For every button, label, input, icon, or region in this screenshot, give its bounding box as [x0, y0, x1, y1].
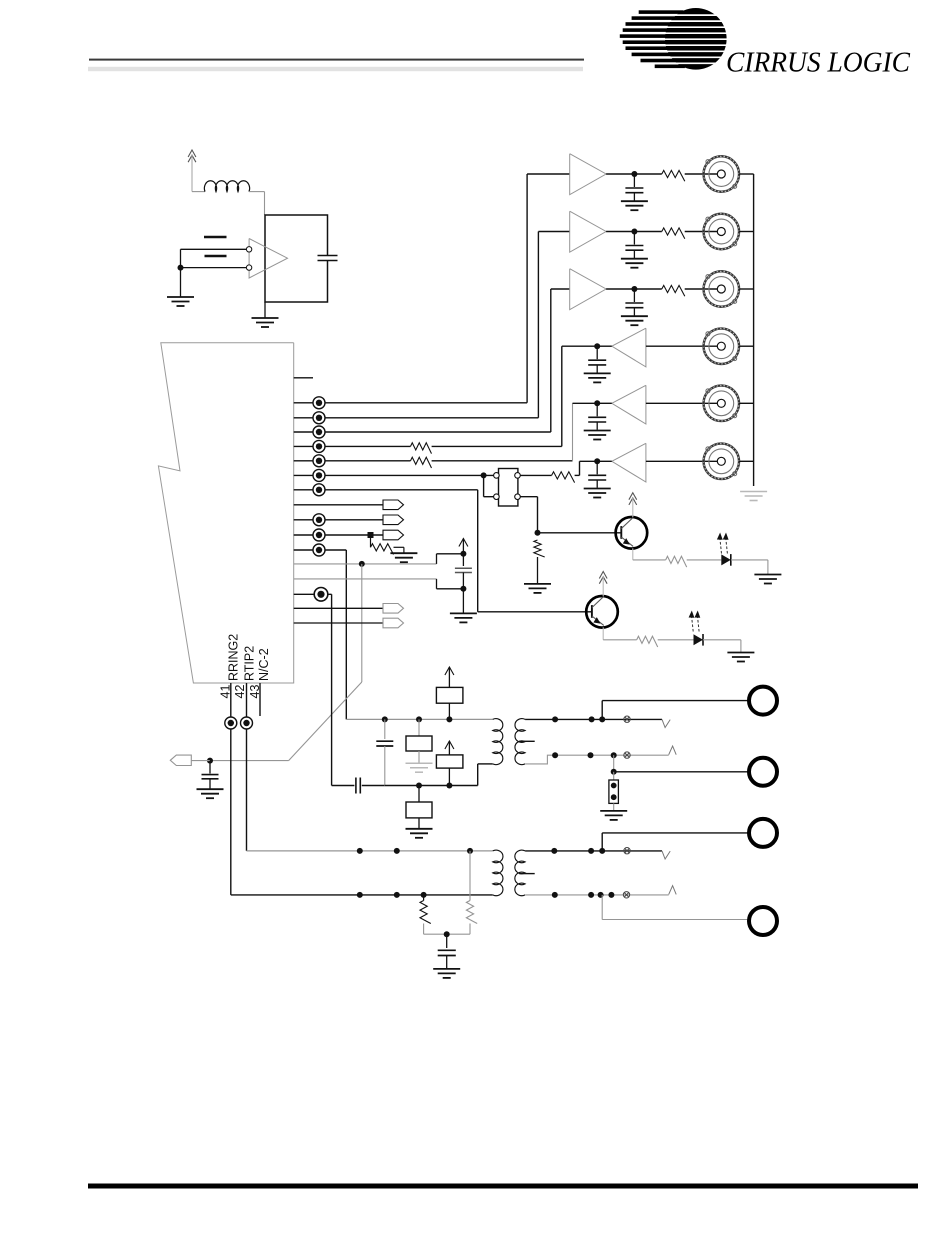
- ground: [390, 553, 417, 562]
- test point: [241, 717, 253, 729]
- wire: [602, 627, 604, 640]
- wire: [602, 700, 749, 702]
- wire: [634, 288, 661, 290]
- ground: [406, 763, 433, 772]
- ground: [584, 489, 611, 498]
- junction: [608, 892, 614, 898]
- wire: [525, 718, 662, 720]
- Q1 emitter: [621, 537, 633, 546]
- wire: [181, 248, 247, 250]
- wire: [230, 683, 232, 895]
- wire: [418, 786, 420, 803]
- wire: [602, 919, 749, 921]
- wire: [403, 547, 405, 553]
- wire: [477, 764, 479, 786]
- wire: [469, 851, 471, 901]
- svg-text:N/C-2: N/C-2: [257, 648, 271, 681]
- wire: [181, 267, 247, 269]
- shape: [669, 886, 677, 895]
- BNC jack row 4: [703, 328, 740, 365]
- decoupling capacitor to ground: [588, 461, 606, 488]
- series resistor row 3: [662, 285, 685, 296]
- junction: [357, 892, 363, 898]
- wire: [294, 474, 497, 476]
- LED1 light arrows: [720, 539, 722, 554]
- ground: [584, 373, 611, 382]
- wire: [202, 774, 219, 776]
- wire: [370, 535, 372, 547]
- shape: [612, 443, 646, 482]
- resistor: [371, 544, 394, 555]
- decoupling capacitor to ground: [625, 174, 643, 201]
- shape: [612, 328, 646, 367]
- junction: [588, 892, 594, 898]
- wire: [685, 173, 717, 175]
- LED2 resistor: [637, 636, 658, 647]
- wire: [418, 719, 420, 736]
- ground: [621, 201, 648, 210]
- wire: [527, 173, 570, 175]
- shape: [669, 746, 677, 755]
- wire: [606, 173, 634, 175]
- junction: [599, 848, 605, 854]
- junction: [481, 472, 487, 478]
- junction: [594, 343, 600, 349]
- junction: [359, 561, 365, 567]
- junction: [416, 716, 422, 722]
- junction: [552, 752, 558, 758]
- jack J4: [749, 907, 777, 935]
- Q2 collector: [592, 596, 604, 607]
- wire: [294, 402, 527, 404]
- wire: [658, 639, 694, 641]
- wire: [462, 573, 464, 589]
- footer rule: [88, 1184, 918, 1189]
- jack J1: [749, 687, 777, 715]
- wire: [264, 302, 266, 318]
- wire: [572, 403, 574, 461]
- wire: [601, 833, 603, 851]
- resistor: [534, 540, 545, 557]
- junction: [446, 783, 452, 789]
- wire: [437, 553, 464, 555]
- wire: [246, 683, 248, 851]
- junction: [394, 848, 400, 854]
- wire: [259, 683, 261, 716]
- inverter input pin bubbles: [246, 247, 251, 252]
- resistor: [466, 901, 477, 924]
- ground: [524, 584, 551, 593]
- wire: [294, 460, 411, 462]
- shape: [570, 269, 606, 310]
- junction: [467, 848, 473, 854]
- junction: [382, 716, 388, 722]
- crossed-circle mark: [624, 716, 630, 722]
- test point: [313, 469, 325, 481]
- shape: [570, 211, 606, 252]
- junction: [611, 769, 617, 775]
- wire: [646, 345, 717, 347]
- jumper header JP1: [499, 469, 518, 507]
- power supply arrow: [445, 667, 454, 675]
- wire: [455, 567, 472, 569]
- wire: [573, 402, 598, 404]
- Cirrus Logic logo globe: [620, 8, 727, 70]
- wire: [537, 232, 539, 418]
- connector pin: [383, 604, 404, 614]
- wire: [537, 557, 539, 583]
- wire: [361, 564, 363, 682]
- junction: [446, 716, 452, 722]
- junction: [611, 794, 617, 800]
- junction: [594, 458, 600, 464]
- wire: [294, 593, 332, 595]
- diagonal wire: [289, 682, 362, 761]
- wire: [447, 933, 470, 935]
- wire: [580, 460, 598, 462]
- BNC jack row 3: [703, 271, 740, 308]
- wire: [209, 761, 211, 774]
- shape: [158, 343, 293, 683]
- wire to shield bus: [739, 231, 754, 233]
- ground: [433, 969, 460, 978]
- resistor: [411, 443, 432, 454]
- wire: [601, 895, 603, 920]
- wire: [294, 417, 539, 419]
- wire: [438, 949, 456, 951]
- header rule light: [88, 67, 583, 71]
- ground: [450, 613, 477, 622]
- shape: [570, 154, 606, 195]
- wire: [423, 895, 425, 901]
- wire: [633, 559, 666, 561]
- junction: [631, 286, 637, 292]
- jack J3: [749, 819, 777, 847]
- wire: [436, 554, 438, 564]
- wire: [448, 703, 450, 719]
- wire: [613, 803, 615, 810]
- wire: [294, 578, 437, 580]
- junction: [599, 716, 605, 722]
- LED D1: [721, 554, 731, 565]
- ground: [197, 789, 224, 798]
- junction: [416, 783, 422, 789]
- junction: [178, 265, 184, 271]
- wire: [575, 474, 580, 476]
- oscillator module box Y1: [265, 215, 328, 302]
- ground: [727, 653, 754, 662]
- Q2 base bar: [591, 605, 593, 618]
- ground: [621, 316, 648, 325]
- wire: [294, 563, 437, 565]
- wire: [597, 460, 612, 462]
- wire: [294, 445, 411, 447]
- wire: [294, 549, 347, 551]
- winding: [515, 719, 525, 765]
- junction: [588, 848, 594, 854]
- wire: [561, 346, 563, 446]
- wire: [634, 173, 661, 175]
- wire: [520, 474, 551, 476]
- wire: [359, 778, 361, 794]
- ground: [252, 318, 279, 327]
- wire: [525, 894, 669, 896]
- wire: [526, 174, 528, 403]
- junction: [551, 848, 557, 854]
- connector pin: [383, 515, 404, 525]
- wire: [687, 559, 722, 561]
- resistor: [552, 472, 575, 483]
- wire to shield bus: [739, 460, 754, 462]
- ground: [754, 575, 781, 584]
- wire: [355, 778, 357, 794]
- wire: [202, 778, 219, 780]
- test point: [225, 717, 237, 729]
- ground: [167, 297, 194, 306]
- wire to shield bus: [739, 173, 754, 175]
- BNC jack row 5: [703, 385, 740, 422]
- wire: [249, 191, 265, 193]
- wire: [432, 460, 573, 462]
- wire: [634, 231, 661, 233]
- wire: [438, 955, 456, 957]
- wire: [264, 192, 266, 215]
- test point: [313, 455, 325, 467]
- wire: [537, 497, 539, 533]
- wire: [205, 255, 227, 257]
- LED1 resistor: [666, 556, 687, 567]
- wire: [294, 519, 383, 521]
- wire: [294, 607, 383, 609]
- wire: [731, 559, 768, 561]
- BNC jack row 1: [703, 156, 740, 193]
- Q2 emitter: [592, 616, 604, 625]
- wire to shield bus: [739, 345, 754, 347]
- junction: [589, 716, 595, 722]
- series resistor row 2: [662, 228, 685, 239]
- wire: [384, 746, 386, 786]
- ground: [406, 829, 433, 838]
- winding: [515, 850, 525, 896]
- winding: [493, 719, 503, 765]
- wire: [614, 771, 749, 773]
- wire: [294, 377, 313, 379]
- BNC jack row 2: [703, 213, 740, 250]
- wire: [520, 496, 537, 498]
- wire: [294, 489, 478, 491]
- wire: [646, 402, 717, 404]
- wire: [740, 640, 742, 652]
- wire: [180, 249, 182, 296]
- wire: [538, 231, 569, 233]
- connector pin: [170, 755, 191, 765]
- wire: [294, 534, 383, 536]
- LED D2: [694, 634, 704, 645]
- winding: [493, 850, 503, 896]
- wire: [519, 740, 535, 742]
- wire: [525, 850, 662, 852]
- wire: [294, 431, 551, 433]
- junction: [631, 171, 637, 177]
- wire: [579, 461, 581, 475]
- wire: [550, 289, 552, 432]
- svg-text:RTIP2: RTIP2: [242, 646, 256, 681]
- junction: [631, 229, 637, 235]
- resistor: [411, 457, 432, 468]
- wire: [685, 231, 717, 233]
- wire: [318, 260, 338, 262]
- wire: [551, 288, 570, 290]
- connector pin: [383, 500, 404, 510]
- decoupling capacitor to ground: [625, 289, 643, 316]
- wire: [437, 588, 464, 590]
- wire: [538, 532, 622, 534]
- junction: [552, 716, 558, 722]
- wire: [384, 719, 386, 739]
- wire to ground: [462, 589, 464, 613]
- junction: [552, 892, 558, 898]
- wire: [767, 560, 769, 574]
- wire: [632, 548, 634, 560]
- wire: [209, 779, 211, 789]
- junction: [460, 586, 466, 592]
- wire: [362, 785, 385, 787]
- BNC jack row 6: [703, 443, 740, 480]
- test point: [313, 412, 325, 424]
- junction: [444, 931, 450, 937]
- svg-text:RRING2: RRING2: [226, 634, 240, 681]
- wire: [376, 745, 393, 747]
- test point: [313, 514, 325, 526]
- shape: [662, 851, 670, 859]
- wire: [703, 639, 741, 641]
- wire to shield bus: [739, 402, 754, 404]
- decoupling capacitor to ground: [588, 346, 606, 373]
- junction: [421, 892, 427, 898]
- connector pin: [383, 618, 404, 628]
- power supply arrow: [188, 150, 196, 162]
- wire: [432, 445, 562, 447]
- ground: [621, 259, 648, 268]
- wire: [446, 956, 448, 969]
- wire: [191, 760, 210, 762]
- Q1 collector: [621, 517, 633, 528]
- wire: [646, 460, 717, 462]
- junction: [207, 758, 213, 764]
- wire: [394, 546, 404, 548]
- wire: [603, 639, 637, 641]
- wire: [613, 772, 615, 780]
- wire: [345, 550, 347, 719]
- wire: [478, 763, 493, 765]
- connector pin: [383, 530, 404, 540]
- wire: [448, 768, 450, 785]
- wire: [192, 191, 205, 193]
- junction: [611, 752, 617, 758]
- test point: [313, 529, 325, 541]
- shape: [662, 719, 670, 727]
- wire: [204, 236, 227, 238]
- wire: [483, 475, 485, 496]
- ground: [600, 811, 627, 820]
- junction: [535, 530, 541, 536]
- junction: [394, 892, 400, 898]
- wire: [346, 718, 492, 720]
- wire: [602, 832, 749, 834]
- wire: [562, 345, 597, 347]
- wire: [318, 255, 338, 257]
- Q1 base bar: [620, 526, 622, 539]
- series resistor row 1: [662, 170, 685, 181]
- wire: [436, 579, 438, 589]
- svg-text:42: 42: [233, 685, 247, 699]
- crossed-circle mark: [623, 892, 629, 898]
- wire: [477, 490, 479, 612]
- decoupling capacitor to ground: [625, 232, 643, 259]
- wire: [519, 873, 535, 875]
- wire: [597, 402, 612, 404]
- power supply arrow: [459, 539, 468, 547]
- wire: [247, 850, 493, 852]
- shape: [612, 385, 646, 424]
- wire: [469, 924, 471, 935]
- junction: [594, 400, 600, 406]
- LED2 light arrows: [692, 617, 694, 632]
- wire: [478, 611, 592, 613]
- crossed-circle mark: [624, 848, 630, 854]
- wire: [597, 345, 612, 347]
- wire: [331, 594, 333, 785]
- wire: [376, 740, 393, 742]
- transistor Q1: [616, 517, 648, 549]
- header rule dark: [89, 59, 584, 61]
- inductor L1: [204, 181, 249, 192]
- junction: [611, 783, 617, 789]
- ground: [740, 492, 767, 501]
- junction: [460, 551, 466, 557]
- shape: [249, 239, 287, 279]
- power supply arrow: [445, 741, 454, 749]
- junction: [588, 752, 594, 758]
- test point: [313, 426, 325, 438]
- wire: [455, 572, 472, 574]
- wire: [423, 924, 425, 935]
- wire: [484, 496, 497, 498]
- wire: [462, 554, 464, 566]
- wire: [385, 785, 478, 787]
- test point: [313, 484, 325, 496]
- jack J2: [749, 758, 777, 786]
- wire: [613, 755, 615, 772]
- test point: [313, 440, 325, 452]
- wire: [332, 785, 355, 787]
- decoupling capacitor to ground: [588, 403, 606, 430]
- power supply arrow: [599, 572, 607, 584]
- test point: [313, 544, 325, 556]
- power supply arrow: [629, 493, 637, 505]
- wire: [424, 933, 447, 935]
- junction: [598, 892, 604, 898]
- wire: [231, 894, 493, 896]
- T1 secondary lower wire: [525, 755, 669, 764]
- wire: [210, 760, 289, 762]
- ground: [584, 431, 611, 440]
- wire: [446, 934, 448, 948]
- wire: [685, 288, 717, 290]
- crossed-circle mark: [624, 752, 630, 758]
- wire: [294, 622, 383, 624]
- wire: [294, 504, 383, 506]
